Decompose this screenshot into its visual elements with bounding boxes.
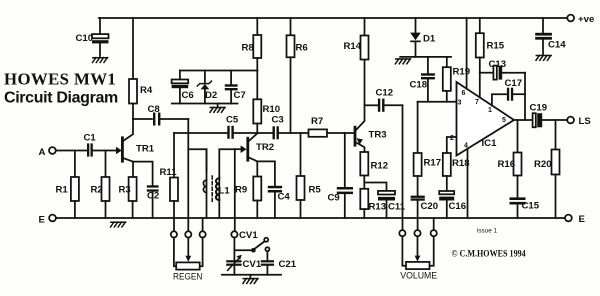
svg-text:R3: R3 bbox=[119, 185, 131, 196]
wire TR1 collector to C8 bbox=[133, 118, 152, 120]
svg-text:5: 5 bbox=[502, 117, 506, 124]
node E terminal left bbox=[49, 215, 56, 222]
resistor R5 bbox=[297, 133, 305, 218]
svg-text:R8: R8 bbox=[242, 43, 255, 54]
resistor R17 bbox=[414, 102, 422, 196]
node LS terminal bbox=[567, 117, 574, 124]
wire CV1 C21 bottom bbox=[222, 274, 281, 276]
svg-text:R7: R7 bbox=[311, 116, 323, 127]
resistor R6 bbox=[287, 18, 295, 133]
svg-text:HOWES MW1: HOWES MW1 bbox=[4, 70, 116, 89]
capacitor C13 bbox=[480, 66, 525, 80]
node REGEN terminal 2 bbox=[185, 231, 191, 237]
wire VOLUME terminal 3 stub bbox=[433, 218, 435, 230]
svg-text:C2: C2 bbox=[147, 191, 159, 202]
capacitor C2 bbox=[147, 185, 159, 218]
resistor R9 bbox=[253, 177, 261, 219]
resistor R2 bbox=[102, 151, 110, 219]
svg-text:2: 2 bbox=[450, 135, 454, 142]
wire TR1 emitter to C2 bbox=[133, 162, 153, 186]
variable capacitor CV1 bbox=[226, 255, 242, 275]
wire pin1 to C17 bbox=[492, 94, 507, 105]
wire output bbox=[514, 119, 533, 121]
svg-text:R6: R6 bbox=[296, 43, 308, 54]
svg-text:C6: C6 bbox=[182, 90, 194, 101]
capacitor C15 bbox=[510, 197, 526, 218]
svg-text:4: 4 bbox=[464, 143, 468, 150]
capacitor C11 bbox=[364, 183, 395, 219]
wire pin6 supply bbox=[466, 18, 468, 89]
svg-text:TR3: TR3 bbox=[369, 130, 387, 141]
capacitor C8 bbox=[153, 113, 188, 126]
svg-text:R11: R11 bbox=[160, 167, 178, 178]
capacitor C4 bbox=[268, 186, 282, 218]
resistor R7 bbox=[309, 129, 355, 136]
resistor R15 bbox=[476, 18, 484, 97]
svg-text:CV1: CV1 bbox=[239, 230, 258, 241]
zener diode D2 bbox=[197, 71, 211, 104]
svg-text:C14: C14 bbox=[548, 40, 566, 51]
bias wire C6 D2 C7 top bbox=[180, 70, 257, 72]
wire tank to CV1 terminal bbox=[234, 149, 236, 231]
capacitor C10 bbox=[92, 18, 109, 57]
op-amp U IC1 triangle bbox=[457, 82, 515, 156]
wire pin2 stub bbox=[447, 137, 457, 153]
svg-text:R14: R14 bbox=[344, 41, 362, 52]
ground under C14 bbox=[536, 55, 551, 60]
ground on E rail bbox=[111, 222, 126, 227]
capacitor C9 bbox=[337, 133, 353, 218]
svg-text:R10: R10 bbox=[263, 104, 281, 115]
svg-text:C12: C12 bbox=[376, 88, 394, 99]
node E terminal right bbox=[565, 215, 572, 222]
transistor TR1 bbox=[116, 120, 133, 178]
node REGEN terminal 3 bbox=[200, 231, 206, 237]
potentiometer REGEN bbox=[174, 238, 203, 270]
node VOLUME terminal 1 bbox=[399, 230, 405, 236]
wire C12 to volume pot bbox=[402, 105, 404, 230]
svg-text:REGEN: REGEN bbox=[173, 271, 202, 282]
svg-text:© C.M.HOWES 1994: © C.M.HOWES 1994 bbox=[452, 248, 527, 259]
svg-text:C3: C3 bbox=[272, 115, 284, 126]
svg-text:issue 1: issue 1 bbox=[477, 228, 497, 235]
svg-text:C20: C20 bbox=[421, 201, 439, 212]
svg-text:C9: C9 bbox=[328, 193, 340, 204]
node VOLUME terminal 3 bbox=[431, 230, 437, 236]
svg-text:VOLUME: VOLUME bbox=[400, 270, 437, 280]
bias wire bottom bbox=[172, 103, 238, 105]
svg-text:R12: R12 bbox=[371, 161, 389, 172]
node REGEN terminal 1 bbox=[171, 231, 177, 237]
wire tank to TR2 base with arrow bbox=[235, 145, 247, 153]
svg-text:C19: C19 bbox=[530, 103, 548, 114]
svg-text:3: 3 bbox=[458, 100, 462, 107]
svg-text:IC1: IC1 bbox=[482, 138, 498, 149]
node VOLUME terminal 2 bbox=[414, 230, 420, 236]
wire bottom E rail bbox=[56, 217, 565, 219]
capacitor C1 bbox=[87, 143, 116, 156]
wire pin3 input bbox=[418, 101, 457, 103]
svg-text:C1: C1 bbox=[84, 133, 97, 144]
capacitor C6 bbox=[172, 71, 189, 104]
svg-text:C5: C5 bbox=[226, 115, 239, 126]
diode D1 bbox=[410, 18, 421, 57]
svg-text:R4: R4 bbox=[140, 85, 153, 96]
svg-text:TR1: TR1 bbox=[136, 144, 155, 155]
svg-text:A: A bbox=[39, 147, 46, 158]
resistor R1 bbox=[71, 151, 79, 219]
svg-text:D1: D1 bbox=[423, 34, 436, 45]
svg-text:C4: C4 bbox=[278, 192, 291, 203]
capacitor C20 bbox=[411, 196, 425, 231]
resistor R8 bbox=[253, 18, 261, 71]
svg-text:R16: R16 bbox=[498, 159, 516, 170]
wire branch to L1 left top bbox=[188, 149, 206, 172]
wire C8 to REGEN wiper bbox=[187, 119, 189, 231]
wire pin4 to rail bbox=[467, 149, 469, 218]
svg-text:L1: L1 bbox=[219, 186, 231, 197]
svg-text:R20: R20 bbox=[534, 159, 552, 170]
capacitor C12 bbox=[365, 99, 403, 112]
svg-text:E: E bbox=[579, 214, 586, 225]
resistor R13 bbox=[360, 189, 368, 218]
resistor R3 bbox=[129, 177, 137, 218]
capacitor C21 bbox=[261, 247, 274, 275]
resistor R14 bbox=[361, 18, 369, 60]
wire C13 C17 to output node bbox=[524, 73, 526, 120]
svg-text:R17: R17 bbox=[424, 158, 442, 169]
svg-text:C10: C10 bbox=[76, 33, 94, 44]
svg-text:R18: R18 bbox=[452, 158, 470, 169]
svg-text:C15: C15 bbox=[522, 201, 540, 212]
svg-text:C18: C18 bbox=[410, 80, 428, 91]
ground under D2 bbox=[210, 104, 225, 113]
svg-text:C7: C7 bbox=[234, 90, 246, 101]
inductor L1 right winding bbox=[216, 149, 235, 218]
svg-text:C13: C13 bbox=[489, 59, 507, 70]
capacitor C19 bbox=[533, 113, 568, 127]
capacitor C16 bbox=[439, 191, 454, 218]
svg-text:R2: R2 bbox=[91, 185, 103, 196]
ground at D1 bus bbox=[395, 59, 410, 64]
svg-text:R1: R1 bbox=[56, 185, 69, 196]
inductor L1 left winding bbox=[203, 149, 206, 218]
resistor R18 bbox=[443, 153, 451, 191]
switch wire and pole bbox=[234, 238, 268, 253]
node CV1 terminal bbox=[231, 231, 237, 237]
resistor R11 bbox=[170, 133, 178, 231]
svg-text:D2: D2 bbox=[205, 90, 217, 101]
ground under CV1 bbox=[243, 275, 258, 284]
wire CV1 terminal down bbox=[233, 238, 235, 261]
svg-text:CV1: CV1 bbox=[243, 259, 262, 270]
svg-text:R19: R19 bbox=[453, 67, 471, 78]
wire REGEN terminal 3 stub bbox=[202, 218, 204, 231]
svg-text:7: 7 bbox=[475, 99, 479, 106]
wire D1 ground bus bbox=[400, 56, 451, 58]
capacitor C17 bbox=[507, 88, 525, 101]
capacitor C18 bbox=[421, 57, 435, 102]
capacitor C5 bbox=[227, 126, 257, 139]
resistor R19 bbox=[443, 57, 451, 102]
resistor R16 bbox=[514, 120, 522, 197]
node A terminal bbox=[49, 147, 56, 154]
transistor TR3 bbox=[355, 60, 365, 153]
svg-text:C16: C16 bbox=[449, 201, 467, 212]
resistor R10 bbox=[253, 71, 261, 134]
wire +ve top rail bbox=[99, 17, 567, 19]
svg-text:R13: R13 bbox=[369, 202, 387, 213]
svg-text:C8: C8 bbox=[148, 104, 161, 115]
svg-text:6: 6 bbox=[462, 90, 466, 97]
svg-text:C21: C21 bbox=[279, 259, 297, 270]
inductor L1 core bbox=[211, 176, 213, 204]
wire TR2 emitter to C4 bbox=[257, 161, 275, 185]
node +ve terminal bbox=[567, 15, 574, 22]
svg-text:+ve: +ve bbox=[578, 14, 594, 25]
svg-text:C17: C17 bbox=[505, 78, 523, 89]
svg-text:TR2: TR2 bbox=[256, 142, 274, 153]
input wire A to C1 bbox=[56, 150, 87, 152]
svg-text:1: 1 bbox=[488, 107, 492, 114]
ground under C10 bbox=[93, 58, 108, 63]
resistor R4 bbox=[129, 18, 137, 119]
svg-text:C11: C11 bbox=[388, 202, 406, 213]
svg-text:R9: R9 bbox=[235, 185, 247, 196]
potentiometer VOLUME bbox=[402, 236, 433, 269]
svg-text:Circuit Diagram: Circuit Diagram bbox=[4, 89, 118, 106]
transistor TR2 bbox=[248, 133, 257, 176]
svg-text:LS: LS bbox=[579, 116, 592, 127]
resistor R20 bbox=[552, 120, 560, 218]
svg-text:R5: R5 bbox=[309, 185, 322, 196]
capacitor C14 bbox=[535, 18, 552, 55]
wire R11 top / C5 line bbox=[174, 132, 227, 134]
capacitor C3 bbox=[257, 126, 308, 139]
svg-text:E: E bbox=[39, 215, 46, 226]
resistor R12 bbox=[360, 152, 368, 189]
svg-text:R15: R15 bbox=[487, 41, 505, 52]
capacitor C7 bbox=[225, 71, 238, 104]
